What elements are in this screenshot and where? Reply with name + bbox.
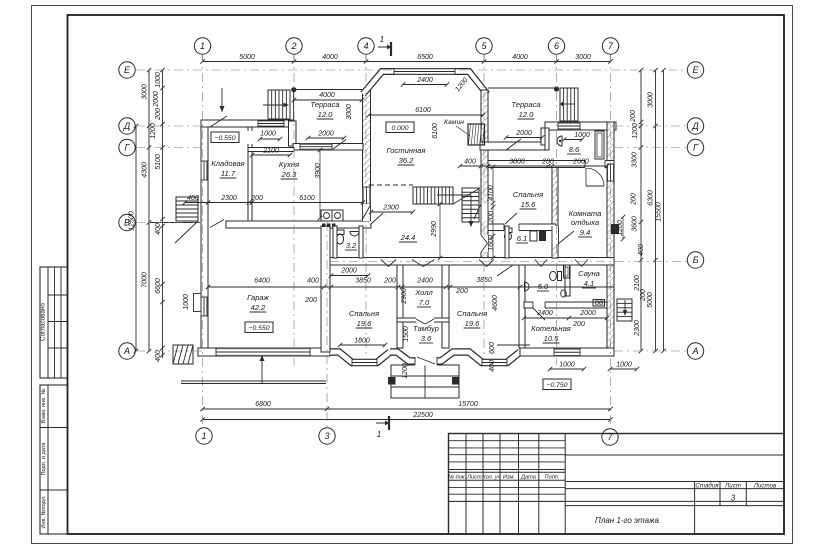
svg-text:отдыха: отдыха <box>571 218 599 227</box>
svg-text:Б: Б <box>693 255 699 265</box>
svg-text:1: 1 <box>200 41 205 51</box>
svg-text:2000: 2000 <box>579 310 596 317</box>
svg-text:15700: 15700 <box>458 401 478 408</box>
svg-text:Спальня: Спальня <box>513 190 543 199</box>
svg-text:Комната: Комната <box>569 209 602 218</box>
svg-text:12.0: 12.0 <box>318 110 334 119</box>
svg-text:5.0: 5.0 <box>538 282 549 291</box>
svg-text:4100: 4100 <box>488 185 495 201</box>
svg-text:6500: 6500 <box>417 54 433 61</box>
svg-text:−0.550: −0.550 <box>215 135 236 142</box>
svg-text:Подп. и дата: Подп. и дата <box>41 442 47 476</box>
svg-text:2400: 2400 <box>416 278 433 285</box>
svg-text:1: 1 <box>380 35 384 44</box>
svg-text:2400: 2400 <box>416 77 433 84</box>
svg-text:36.2: 36.2 <box>399 156 415 165</box>
svg-text:1: 1 <box>201 431 206 441</box>
svg-text:11.7: 11.7 <box>221 169 236 178</box>
svg-text:1500: 1500 <box>403 326 410 342</box>
svg-text:2: 2 <box>290 41 296 51</box>
svg-text:26.3: 26.3 <box>281 170 298 179</box>
svg-text:Согласовано: Согласовано <box>40 303 47 341</box>
svg-text:400: 400 <box>307 278 319 285</box>
svg-text:12500: 12500 <box>129 211 136 231</box>
svg-text:2000: 2000 <box>340 268 357 275</box>
svg-text:24.4: 24.4 <box>400 233 416 242</box>
svg-text:6.1: 6.1 <box>517 234 528 243</box>
svg-text:5100: 5100 <box>155 154 162 170</box>
svg-text:6300: 6300 <box>648 190 655 206</box>
svg-text:400: 400 <box>638 244 645 256</box>
svg-text:8.6: 8.6 <box>569 145 580 154</box>
svg-text:400: 400 <box>489 360 496 372</box>
svg-text:1000: 1000 <box>574 132 590 139</box>
svg-text:200: 200 <box>488 211 495 224</box>
svg-text:400: 400 <box>464 159 476 166</box>
svg-text:600: 600 <box>489 342 496 354</box>
svg-text:6800: 6800 <box>255 401 271 408</box>
svg-text:6600: 6600 <box>155 278 162 294</box>
svg-text:6400: 6400 <box>254 278 270 285</box>
svg-text:5000: 5000 <box>239 54 255 61</box>
svg-text:3850: 3850 <box>476 277 492 284</box>
svg-text:Лист: Лист <box>724 482 741 489</box>
svg-text:Е: Е <box>124 65 131 75</box>
svg-text:4000: 4000 <box>512 54 528 61</box>
svg-text:−0.750: −0.750 <box>547 382 568 389</box>
svg-text:1800: 1800 <box>354 338 370 345</box>
svg-text:200: 200 <box>572 321 585 328</box>
svg-text:Д: Д <box>123 121 131 131</box>
svg-text:Лист: Лист <box>466 475 482 481</box>
svg-text:1000: 1000 <box>260 131 276 138</box>
svg-text:4.1: 4.1 <box>584 279 595 288</box>
svg-text:1000: 1000 <box>616 362 632 369</box>
svg-text:4: 4 <box>363 41 368 51</box>
svg-text:Холл: Холл <box>414 288 433 297</box>
svg-text:Терраса: Терраса <box>511 100 540 109</box>
svg-text:3000: 3000 <box>575 54 591 61</box>
svg-text:2000: 2000 <box>317 131 334 138</box>
svg-text:А: А <box>691 346 698 356</box>
svg-text:4000: 4000 <box>319 92 335 99</box>
svg-text:Подп.: Подп. <box>545 475 560 481</box>
svg-text:200: 200 <box>541 159 554 166</box>
svg-text:6100: 6100 <box>415 107 431 114</box>
svg-text:№ док.: № док. <box>448 475 466 481</box>
svg-text:Гараж: Гараж <box>247 293 270 302</box>
svg-text:Спальня: Спальня <box>349 309 379 318</box>
svg-text:200: 200 <box>383 278 396 285</box>
svg-text:3: 3 <box>731 494 736 503</box>
svg-text:Кладовая: Кладовая <box>211 159 244 168</box>
svg-text:Е: Е <box>692 65 699 75</box>
svg-text:Камин: Камин <box>444 119 464 126</box>
svg-text:Стадия: Стадия <box>695 482 719 489</box>
svg-text:Терраса: Терраса <box>310 100 339 109</box>
svg-text:Д: Д <box>691 121 699 131</box>
svg-text:22500: 22500 <box>412 412 433 419</box>
svg-text:3800: 3800 <box>509 159 525 166</box>
svg-text:19.6: 19.6 <box>357 319 373 328</box>
svg-text:2600: 2600 <box>572 159 589 166</box>
svg-text:7.0: 7.0 <box>419 298 430 307</box>
svg-text:3850: 3850 <box>355 278 371 285</box>
svg-text:Листов: Листов <box>753 482 777 489</box>
svg-text:200: 200 <box>455 288 468 295</box>
svg-text:1200: 1200 <box>402 363 409 379</box>
svg-text:3000: 3000 <box>346 104 353 120</box>
svg-text:1000: 1000 <box>155 72 162 88</box>
svg-text:200: 200 <box>155 108 162 121</box>
svg-text:Спальня: Спальня <box>457 309 487 318</box>
svg-text:2100: 2100 <box>262 148 279 155</box>
svg-text:Тамбур: Тамбур <box>413 324 439 333</box>
svg-text:А: А <box>123 346 130 356</box>
svg-text:9.4: 9.4 <box>580 228 591 237</box>
svg-text:3900: 3900 <box>315 163 322 179</box>
svg-text:3.6: 3.6 <box>421 334 432 343</box>
svg-text:1: 1 <box>377 430 381 439</box>
svg-text:Взам. инв. №: Взам. инв. № <box>41 389 47 424</box>
svg-text:1000: 1000 <box>559 362 575 369</box>
svg-text:6: 6 <box>554 41 559 51</box>
svg-text:Котельная: Котельная <box>531 324 571 333</box>
svg-text:12.0: 12.0 <box>519 110 535 119</box>
svg-text:2000: 2000 <box>153 91 160 108</box>
svg-text:Кухня: Кухня <box>279 160 299 169</box>
svg-text:2900: 2900 <box>401 288 408 305</box>
svg-text:План 1-го этажа: План 1-го этажа <box>595 516 659 525</box>
svg-text:3600: 3600 <box>632 216 639 232</box>
svg-text:Сауна: Сауна <box>578 269 600 278</box>
svg-text:2400: 2400 <box>536 310 553 317</box>
svg-text:1200: 1200 <box>150 123 157 139</box>
svg-text:42.2: 42.2 <box>251 303 267 312</box>
svg-text:2300: 2300 <box>634 320 641 337</box>
svg-text:3: 3 <box>324 431 329 441</box>
svg-text:Кол. уч: Кол. уч <box>482 475 500 481</box>
svg-text:−0.550: −0.550 <box>249 325 270 332</box>
svg-text:1200: 1200 <box>632 123 639 139</box>
svg-text:2990: 2990 <box>431 221 438 238</box>
svg-text:15500: 15500 <box>656 202 663 222</box>
svg-text:200: 200 <box>640 289 647 302</box>
svg-text:200: 200 <box>250 195 263 202</box>
svg-text:3.2: 3.2 <box>346 241 357 250</box>
svg-text:200: 200 <box>631 193 638 206</box>
svg-text:Дата: Дата <box>520 475 536 481</box>
svg-text:400: 400 <box>155 223 162 235</box>
svg-text:3000: 3000 <box>648 92 655 108</box>
svg-text:0.000: 0.000 <box>391 125 408 132</box>
svg-text:4300: 4300 <box>142 162 149 178</box>
svg-text:2000: 2000 <box>515 130 532 137</box>
svg-text:Инв. №подл.: Инв. №подл. <box>41 495 47 529</box>
svg-text:3300: 3300 <box>632 152 639 168</box>
svg-text:4600: 4600 <box>492 295 499 311</box>
svg-text:6100: 6100 <box>299 195 315 202</box>
svg-text:3000: 3000 <box>142 84 149 100</box>
svg-text:10.5: 10.5 <box>544 334 560 343</box>
svg-text:19.6: 19.6 <box>465 319 481 328</box>
svg-text:Гостинная: Гостинная <box>387 146 426 155</box>
svg-text:200: 200 <box>630 110 637 123</box>
svg-text:4000: 4000 <box>322 54 338 61</box>
svg-text:2300: 2300 <box>220 195 237 202</box>
svg-text:400: 400 <box>155 350 162 362</box>
svg-text:15.6: 15.6 <box>521 200 537 209</box>
svg-text:200: 200 <box>304 297 317 304</box>
svg-text:6100: 6100 <box>432 123 439 139</box>
svg-text:400: 400 <box>187 195 199 202</box>
svg-text:2300: 2300 <box>382 205 399 212</box>
svg-text:5000: 5000 <box>647 292 654 308</box>
svg-text:1000: 1000 <box>183 294 190 310</box>
svg-text:7000: 7000 <box>142 272 149 288</box>
svg-text:Изм.: Изм. <box>503 475 515 481</box>
